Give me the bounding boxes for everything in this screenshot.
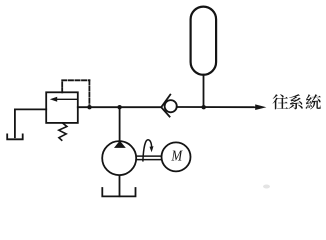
motor M1 — [162, 142, 191, 171]
node: pilot line junction — [87, 105, 91, 109]
check valve V1 ball — [165, 100, 177, 112]
node: pump line junction — [117, 105, 121, 109]
tank T2 (suction tank) — [102, 188, 135, 196]
wire: relief valve drain line — [15, 109, 46, 137]
wire: main pressure line (check valve to system arrow) — [177, 106, 256, 108]
faint print smudge — [263, 185, 270, 189]
label: 往系統 (to system) char 往 — [273, 94, 289, 109]
relief valve flow arrow — [50, 97, 78, 102]
label: 往系統 char 統 — [306, 94, 321, 109]
accumulator — [191, 7, 217, 75]
pump P1 — [102, 141, 136, 175]
motor label M — [171, 151, 182, 161]
wire: accumulator drop line — [203, 75, 205, 108]
pump output triangle — [114, 141, 126, 148]
arrowhead: to system — [255, 104, 266, 110]
pilot line (dashed) — [62, 80, 89, 106]
wire: main pressure line (valve to check valve seat) — [78, 106, 162, 108]
relief valve body — [46, 92, 78, 123]
node: accumulator junction — [202, 105, 206, 109]
shaft: pump to motor — [137, 156, 161, 160]
relief valve spring — [59, 123, 67, 140]
check valve V1 seat — [161, 95, 170, 117]
rotation arrow — [143, 140, 154, 161]
label: 往系統 char 系 — [288, 94, 302, 109]
wire: pump riser — [119, 107, 121, 140]
wire: pump suction line — [119, 176, 121, 196]
tank T1 (drain tank) — [7, 134, 23, 139]
